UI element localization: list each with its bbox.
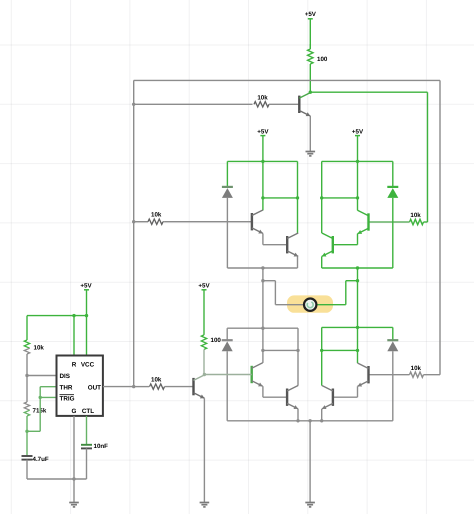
node timing cap <box>25 430 28 433</box>
node UL base tap <box>132 220 135 223</box>
svg-text:100: 100 <box>211 337 222 344</box>
wire left column top <box>26 316 28 340</box>
transistor Q1 (top inverter, NPN) <box>298 96 300 113</box>
wire node A to feedback (green) <box>310 91 427 93</box>
node LL inner left <box>261 349 264 352</box>
svg-text:100: 100 <box>317 56 328 63</box>
wire UL top rail (+5V) <box>227 160 297 162</box>
node VCC corner <box>85 314 88 317</box>
node UR inner right <box>356 196 359 199</box>
wire VCC pin <box>86 316 88 356</box>
node B (Q10 collector node) <box>203 373 206 376</box>
node OUT <box>132 385 135 388</box>
wire UL base lead <box>165 221 252 223</box>
wire LR diode cathode lead <box>392 327 394 340</box>
wire LR inner collector rail <box>322 349 358 351</box>
wire LR left vertical <box>321 327 323 385</box>
wire LL right vertical <box>297 328 299 385</box>
resistor 100 (Q10 collector) <box>201 335 206 350</box>
ground (below Q10) <box>200 502 210 504</box>
node UR rail tap <box>356 160 359 163</box>
transistor Q7 (lower-left darlington B) <box>286 389 288 406</box>
wire TRIG pin <box>40 396 56 398</box>
wire Q3 emitter down <box>297 256 299 268</box>
node A (Q1 collector node) <box>309 91 312 94</box>
wire OUT pin <box>103 386 134 388</box>
resistor 10k (Q10 base) <box>150 384 165 389</box>
wire UL diode cathode lead <box>226 161 228 187</box>
wire Q1 base from left rail <box>134 103 253 105</box>
wire trig branch vertical <box>39 387 41 432</box>
svg-text:VCC: VCC <box>81 362 95 369</box>
resistor 10k (555 charge) <box>24 340 29 348</box>
svg-text:DIS: DIS <box>60 373 71 380</box>
wire Q1 emitter to ground <box>309 116 311 152</box>
svg-text:+5V: +5V <box>352 128 364 135</box>
resistor 10k (upper-left base) <box>134 221 148 223</box>
resistor 10k (lower-right base drive) <box>424 374 441 376</box>
node LR rail tap <box>356 326 359 329</box>
wire motor left branch <box>262 268 264 328</box>
wire bridge ground rail <box>227 420 393 422</box>
wire OUT node up left side (gray) <box>133 80 135 386</box>
diode D3 (lower-left flyback) <box>222 339 233 341</box>
node TRIG tap <box>39 396 42 399</box>
op-amp U1 555 timer body <box>57 356 103 416</box>
svg-text:10k: 10k <box>34 344 45 351</box>
node UL output <box>261 266 264 269</box>
wire UR inner collector rail <box>322 197 358 199</box>
node R pin tap <box>72 314 75 317</box>
svg-text:10k: 10k <box>257 94 268 101</box>
wire UL output rail <box>227 267 297 269</box>
transistor Q5 (upper-right darlington B) <box>332 236 334 253</box>
resistor 715k (555 timing) <box>24 402 29 410</box>
node UR inner left <box>320 196 323 199</box>
wire LR feed vertical <box>357 327 359 363</box>
svg-text:10nF: 10nF <box>94 443 109 450</box>
wire ground stem (555) <box>73 479 75 503</box>
svg-text:OUT: OUT <box>88 384 101 391</box>
wire ground stem (bridge) <box>309 421 311 503</box>
svg-text:TRIG: TRIG <box>60 395 75 402</box>
transistor Q6 (lower-left darlington A) <box>250 366 252 383</box>
wire UL diode anode lead <box>226 198 228 268</box>
node UL inner left <box>261 196 264 199</box>
node UR output <box>356 266 359 269</box>
node ground junction <box>72 477 75 480</box>
selection highlight (motor) <box>287 295 333 312</box>
wire 10k to DIS node <box>26 354 28 376</box>
wire LR top rail (output right) <box>322 326 393 328</box>
resistor 100 (top, to Q1 collector) <box>308 49 313 64</box>
node LL rail tap <box>261 327 264 330</box>
wire Q5 emitter down <box>321 256 323 268</box>
svg-text:+5V: +5V <box>257 128 269 135</box>
grid (decorative, not labelled further) <box>10 0 12 514</box>
wire feedback down right side (green) <box>427 92 429 222</box>
wire LL darlington link <box>262 386 264 397</box>
motor M1 <box>304 299 316 311</box>
diode D1 (upper-left flyback) <box>222 186 233 188</box>
node DIS <box>25 374 28 377</box>
wire G pin <box>73 416 75 479</box>
diode D2 (upper-right flyback) <box>387 186 398 188</box>
svg-text:+5V: +5V <box>305 11 317 18</box>
transistor Q10 (bottom inverter) <box>192 378 194 395</box>
wire UR darlington link <box>357 234 359 245</box>
node rail Q9 emitter <box>320 419 323 422</box>
wire LR diode anode lead <box>392 351 394 421</box>
capacitor 10nF (control) <box>81 444 92 446</box>
wire UL darlington link <box>262 233 264 244</box>
svg-text:+5V: +5V <box>198 282 210 289</box>
wire Q7 emitter down <box>297 409 299 421</box>
wire UR diode anode lead <box>392 198 394 268</box>
wire R pin <box>73 316 75 356</box>
wire CTL pin <box>86 416 88 445</box>
svg-text:10k: 10k <box>411 365 422 372</box>
wire LL top rail (output left) <box>227 327 298 329</box>
ground (bridge) <box>305 502 315 504</box>
capacitor 4.7uF (timing) <box>26 431 28 456</box>
wire LR darlington link <box>357 386 359 397</box>
transistor Q4 (upper-right darlington A) <box>367 213 369 230</box>
svg-text:R: R <box>72 362 77 369</box>
node junction x133/y104 <box>132 103 135 106</box>
node UL inner right <box>296 196 299 199</box>
svg-text:4.7uF: 4.7uF <box>33 456 49 463</box>
wire UR diode cathode lead <box>392 161 394 187</box>
resistor 10k (upper-right base drive) <box>424 221 428 223</box>
node LR inner left <box>320 349 323 352</box>
transistor Q2 (upper-left darlington A) <box>251 213 253 230</box>
ground (555) <box>69 502 79 504</box>
wire cap to ground junction <box>27 478 87 480</box>
node motor left <box>261 279 264 282</box>
svg-text:G: G <box>72 408 77 415</box>
node rail Q7 emitter <box>296 419 299 422</box>
wire right edge down (gray) <box>439 80 441 374</box>
svg-text:CTL: CTL <box>82 408 94 415</box>
wire DIS to 715k <box>26 376 28 403</box>
wire trig branch horizontal <box>27 430 40 432</box>
wire DIS pin <box>27 375 57 377</box>
wire Q9 emitter down <box>321 409 323 421</box>
svg-text:THR: THR <box>60 384 73 391</box>
wire Q10 emitter to ground <box>203 398 205 502</box>
ground (below Q1) <box>306 151 316 153</box>
wire LL feed vertical <box>262 328 264 363</box>
node rail ground tap <box>308 419 311 422</box>
node LR inner right <box>356 349 359 352</box>
wire motor right branch <box>357 268 359 327</box>
svg-text:10k: 10k <box>410 212 421 219</box>
svg-text:10k: 10k <box>151 212 162 219</box>
wire THR pin <box>40 386 56 388</box>
wire top edge (gray) <box>134 79 440 81</box>
wire UR left vertical <box>321 161 323 233</box>
transistor Q8 (lower-right darlington A) <box>367 366 369 383</box>
wire 715k to cap node <box>26 416 28 431</box>
wire UL right vertical (+5V to Q3 collector) <box>297 161 299 233</box>
wire UR top rail (+5V) <box>322 160 393 162</box>
wire 555 supply rail <box>27 315 87 317</box>
transistor Q9 (lower-right darlington B) <box>332 389 334 406</box>
node motor right <box>356 279 359 282</box>
svg-text:10k: 10k <box>151 377 162 384</box>
wire node B to lower-left base <box>204 374 251 376</box>
wire UL inner collector rail <box>263 197 298 199</box>
wire LL inner collector rail <box>263 349 298 351</box>
node UL rail tap <box>261 160 264 163</box>
wire LL diode anode lead <box>226 351 228 421</box>
wire LL diode cathode lead <box>226 328 228 340</box>
diode D4 (lower-right flyback) <box>387 339 398 341</box>
node LL inner right <box>296 349 299 352</box>
wire UR output rail <box>322 267 393 269</box>
resistor 10k (Q1 base) <box>254 102 269 107</box>
transistor Q3 (upper-left darlington B) <box>286 236 288 253</box>
svg-text:+5V: +5V <box>80 282 92 289</box>
